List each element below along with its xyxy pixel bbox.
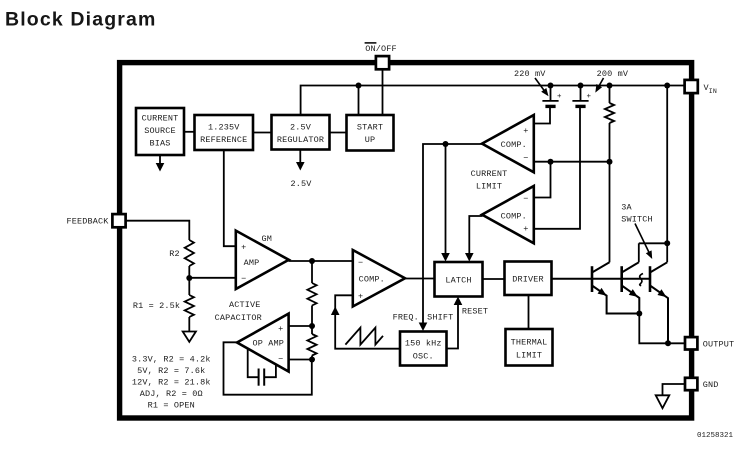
svg-text:3A: 3A [621, 203, 632, 213]
svg-text:BIAS: BIAS [149, 138, 170, 148]
node rail to sense resistor [607, 83, 613, 89]
wire node to GM AMP - input [189, 277, 236, 279]
svg-text:LIMIT: LIMIT [516, 350, 542, 360]
node sense junction [607, 159, 613, 165]
node op amp - junction [309, 357, 315, 363]
node comparator - branch [548, 159, 554, 165]
block THERMAL LIMIT [506, 329, 553, 366]
svg-text:CURRENT: CURRENT [471, 169, 508, 179]
wire branch into LATCH set input [445, 144, 447, 254]
svg-text:CAPACITOR: CAPACITOR [215, 313, 262, 323]
svg-text:−: − [523, 154, 528, 164]
svg-text:REFERENCE: REFERENCE [200, 135, 247, 145]
wire rail to sense resistor [609, 86, 611, 104]
capacitor C1 across op amp [248, 349, 259, 377]
svg-text:−: − [241, 274, 246, 284]
wire sense node to upper comparator - input [535, 161, 610, 163]
svg-text:UP: UP [365, 135, 376, 145]
svg-text:LATCH: LATCH [445, 276, 471, 286]
wire emitters to OUTPUT pin [639, 314, 686, 344]
block START UP [347, 115, 394, 151]
node op amp + junction [309, 323, 315, 329]
wire op amp - input [289, 359, 312, 361]
wire current limit lower comparator output into LATCH [469, 216, 482, 254]
battery 200 mV reference [580, 86, 582, 101]
wire 200mV reference to lower comparator + input [535, 106, 581, 228]
svg-text:+: + [557, 93, 562, 101]
svg-text:ACTIVE: ACTIVE [229, 300, 261, 310]
squiggle jog on base rail [640, 274, 643, 286]
wire REFERENCE to REGULATOR [253, 132, 272, 134]
sawtooth oscillator waveform [345, 328, 383, 345]
wire sense resistor to sense node [609, 123, 611, 162]
wire REFERENCE output to GM AMP + input [224, 150, 237, 246]
node output junction [665, 340, 671, 346]
wire current limit upper comparator output / freq shift [423, 144, 483, 324]
arrow 3A switch pointer [635, 224, 649, 254]
wire node to R1 [188, 278, 190, 295]
node rail-startup junction [356, 83, 362, 89]
block 1.235V REFERENCE [195, 115, 254, 150]
op-amp OP AMP (active capacitor) [237, 314, 289, 372]
node emitter junction [636, 311, 642, 317]
svg-text:5V, R2 = 7.6k: 5V, R2 = 7.6k [137, 366, 205, 376]
svg-text:COMP.: COMP. [359, 275, 385, 285]
arrow ramp into + input [331, 307, 340, 316]
wire 220mV reference to upper comparator + input [535, 106, 551, 123]
wire oscillator RESET to LATCH [446, 304, 458, 349]
arrow 220 mV pointer [535, 78, 546, 93]
resistor R1 [185, 295, 194, 317]
wire rail down to Q2/Q3 collectors [666, 86, 668, 263]
comparator PWM COMP [353, 250, 405, 307]
block CURRENT SOURCE BIAS [136, 108, 184, 155]
wire R1 to ground [188, 317, 190, 331]
svg-text:GM: GM [262, 234, 273, 244]
svg-text:+: + [586, 93, 591, 101]
svg-text:220 mV: 220 mV [514, 69, 546, 79]
svg-text:LIMIT: LIMIT [476, 182, 502, 192]
svg-text:OSC.: OSC. [413, 351, 434, 361]
resistor current sense [605, 103, 614, 123]
wire LATCH to DRIVER [482, 278, 505, 280]
transistor Q1 [591, 266, 594, 292]
wire arrow below CURRENT SOURCE BIAS [159, 155, 161, 164]
node rail to 220mV reference [548, 83, 554, 89]
svg-text:OP AMP: OP AMP [252, 338, 284, 348]
wire GM AMP output to PWM comparator - input [289, 260, 353, 262]
svg-text:01258321: 01258321 [697, 432, 734, 440]
wire PWM comparator + input from oscillator ramp [335, 295, 400, 348]
svg-text:VIN: VIN [704, 83, 717, 95]
battery 220 mV reference [550, 86, 552, 101]
svg-text:R1 = OPEN: R1 = OPEN [148, 401, 195, 411]
svg-text:200 mV: 200 mV [597, 69, 629, 79]
comparator current limit upper [482, 115, 534, 172]
svg-text:COMP.: COMP. [501, 212, 527, 222]
svg-text:START: START [357, 122, 383, 132]
svg-text:−: − [523, 194, 528, 204]
svg-text:GND: GND [703, 380, 719, 390]
wire 2.5V output arrow below REGULATOR [299, 150, 301, 163]
resistor compensation lower [307, 334, 316, 355]
wire PWM comparator output to LATCH [405, 278, 436, 280]
block 150 kHz OSC. [400, 332, 447, 366]
op-amp GM AMP [236, 231, 289, 289]
wire VIN supply rail [301, 86, 686, 116]
node Q2/Q3 collector junction [664, 240, 670, 246]
wire REGULATOR to START UP [329, 132, 347, 134]
svg-text:12V, R2 = 21.8k: 12V, R2 = 21.8k [132, 378, 211, 388]
svg-text:2.5V: 2.5V [290, 122, 312, 132]
wire DRIVER to THERMAL LIMIT [528, 295, 530, 330]
svg-text:FEEDBACK: FEEDBACK [66, 217, 109, 227]
node GM output / compensation top [309, 258, 315, 264]
transistor Q2 [620, 266, 623, 292]
wire GND pin to ground symbol [663, 384, 687, 395]
svg-text:+: + [523, 224, 528, 234]
svg-text:−: − [358, 258, 363, 268]
node rail to switch collectors [664, 83, 670, 89]
svg-text:Block Diagram: Block Diagram [5, 9, 157, 31]
wire op amp output feedback loop [224, 342, 312, 394]
node current limit output branch [443, 141, 449, 147]
pin ON/OFF [376, 56, 389, 69]
wire op amp + input [289, 325, 312, 327]
svg-text:1.235V: 1.235V [208, 122, 240, 132]
wire Q2 collector link [639, 242, 667, 244]
svg-text:+: + [358, 292, 363, 302]
arrow freq shift into oscillator [419, 323, 428, 332]
svg-text:+: + [523, 126, 528, 136]
block LATCH [435, 262, 483, 297]
block 2.5V REGULATOR [272, 115, 330, 150]
svg-text:ON/OFF: ON/OFF [365, 44, 397, 54]
wire node to compensation resistor lower [311, 326, 313, 334]
transistor Q3 [649, 266, 652, 292]
resistor compensation upper [307, 283, 316, 306]
svg-text:SWITCH: SWITCH [621, 214, 653, 224]
pin VIN [685, 80, 698, 93]
node feedback divider junction [186, 275, 192, 281]
wire CURRENT SOURCE BIAS to REFERENCE [184, 131, 195, 133]
svg-text:OUTPUT: OUTPUT [703, 339, 735, 349]
pin FEEDBACK [112, 214, 125, 227]
svg-text:DRIVER: DRIVER [512, 275, 544, 285]
wire resistor to op amp + node [311, 306, 313, 327]
svg-text:−: − [278, 354, 283, 364]
svg-text:SHIFT: SHIFT [427, 312, 453, 322]
block DRIVER [505, 262, 552, 296]
wire R2 to feedback node [188, 266, 190, 278]
svg-text:2.5V: 2.5V [290, 179, 312, 189]
ground open arrow at GND [656, 395, 670, 408]
svg-text:CURRENT: CURRENT [142, 114, 179, 124]
svg-text:+: + [241, 242, 246, 252]
svg-text:ADJ, R2 = 0Ω: ADJ, R2 = 0Ω [140, 389, 203, 399]
wire ON/OFF pin to START UP [382, 67, 384, 115]
wire resistor to op amp - node [311, 356, 313, 360]
wire node to compensation resistor [311, 261, 313, 283]
comparator current limit lower [482, 186, 534, 243]
resistor R2 [185, 240, 194, 266]
svg-text:REGULATOR: REGULATOR [277, 135, 324, 145]
svg-text:FREQ.: FREQ. [393, 312, 419, 322]
svg-text:AMP: AMP [244, 258, 260, 268]
svg-text:COMP.: COMP. [501, 140, 527, 150]
svg-text:+: + [278, 324, 283, 334]
wire FEEDBACK pin to R2 [126, 221, 189, 240]
IC boundary thick border [120, 63, 692, 418]
svg-text:R2: R2 [169, 249, 180, 259]
wire branch to lower comparator - input [535, 162, 551, 198]
pin GND [685, 378, 697, 390]
wire DRIVER output to switch base rail [551, 278, 650, 280]
wire sense node down to Q1 collector [609, 162, 611, 263]
wire rail to START UP [358, 86, 360, 116]
svg-text:150 kHz: 150 kHz [405, 339, 442, 349]
arrow 200 mV pointer [597, 78, 604, 90]
node rail to 200mV reference [578, 83, 584, 89]
ground open arrow below R1 [183, 332, 196, 342]
svg-text:R1 = 2.5k: R1 = 2.5k [133, 301, 180, 311]
svg-text:SOURCE: SOURCE [144, 126, 176, 136]
svg-text:3.3V, R2 = 4.2k: 3.3V, R2 = 4.2k [132, 354, 211, 364]
svg-text:THERMAL: THERMAL [511, 338, 548, 348]
svg-text:RESET: RESET [462, 307, 488, 317]
pin OUTPUT [685, 337, 697, 349]
